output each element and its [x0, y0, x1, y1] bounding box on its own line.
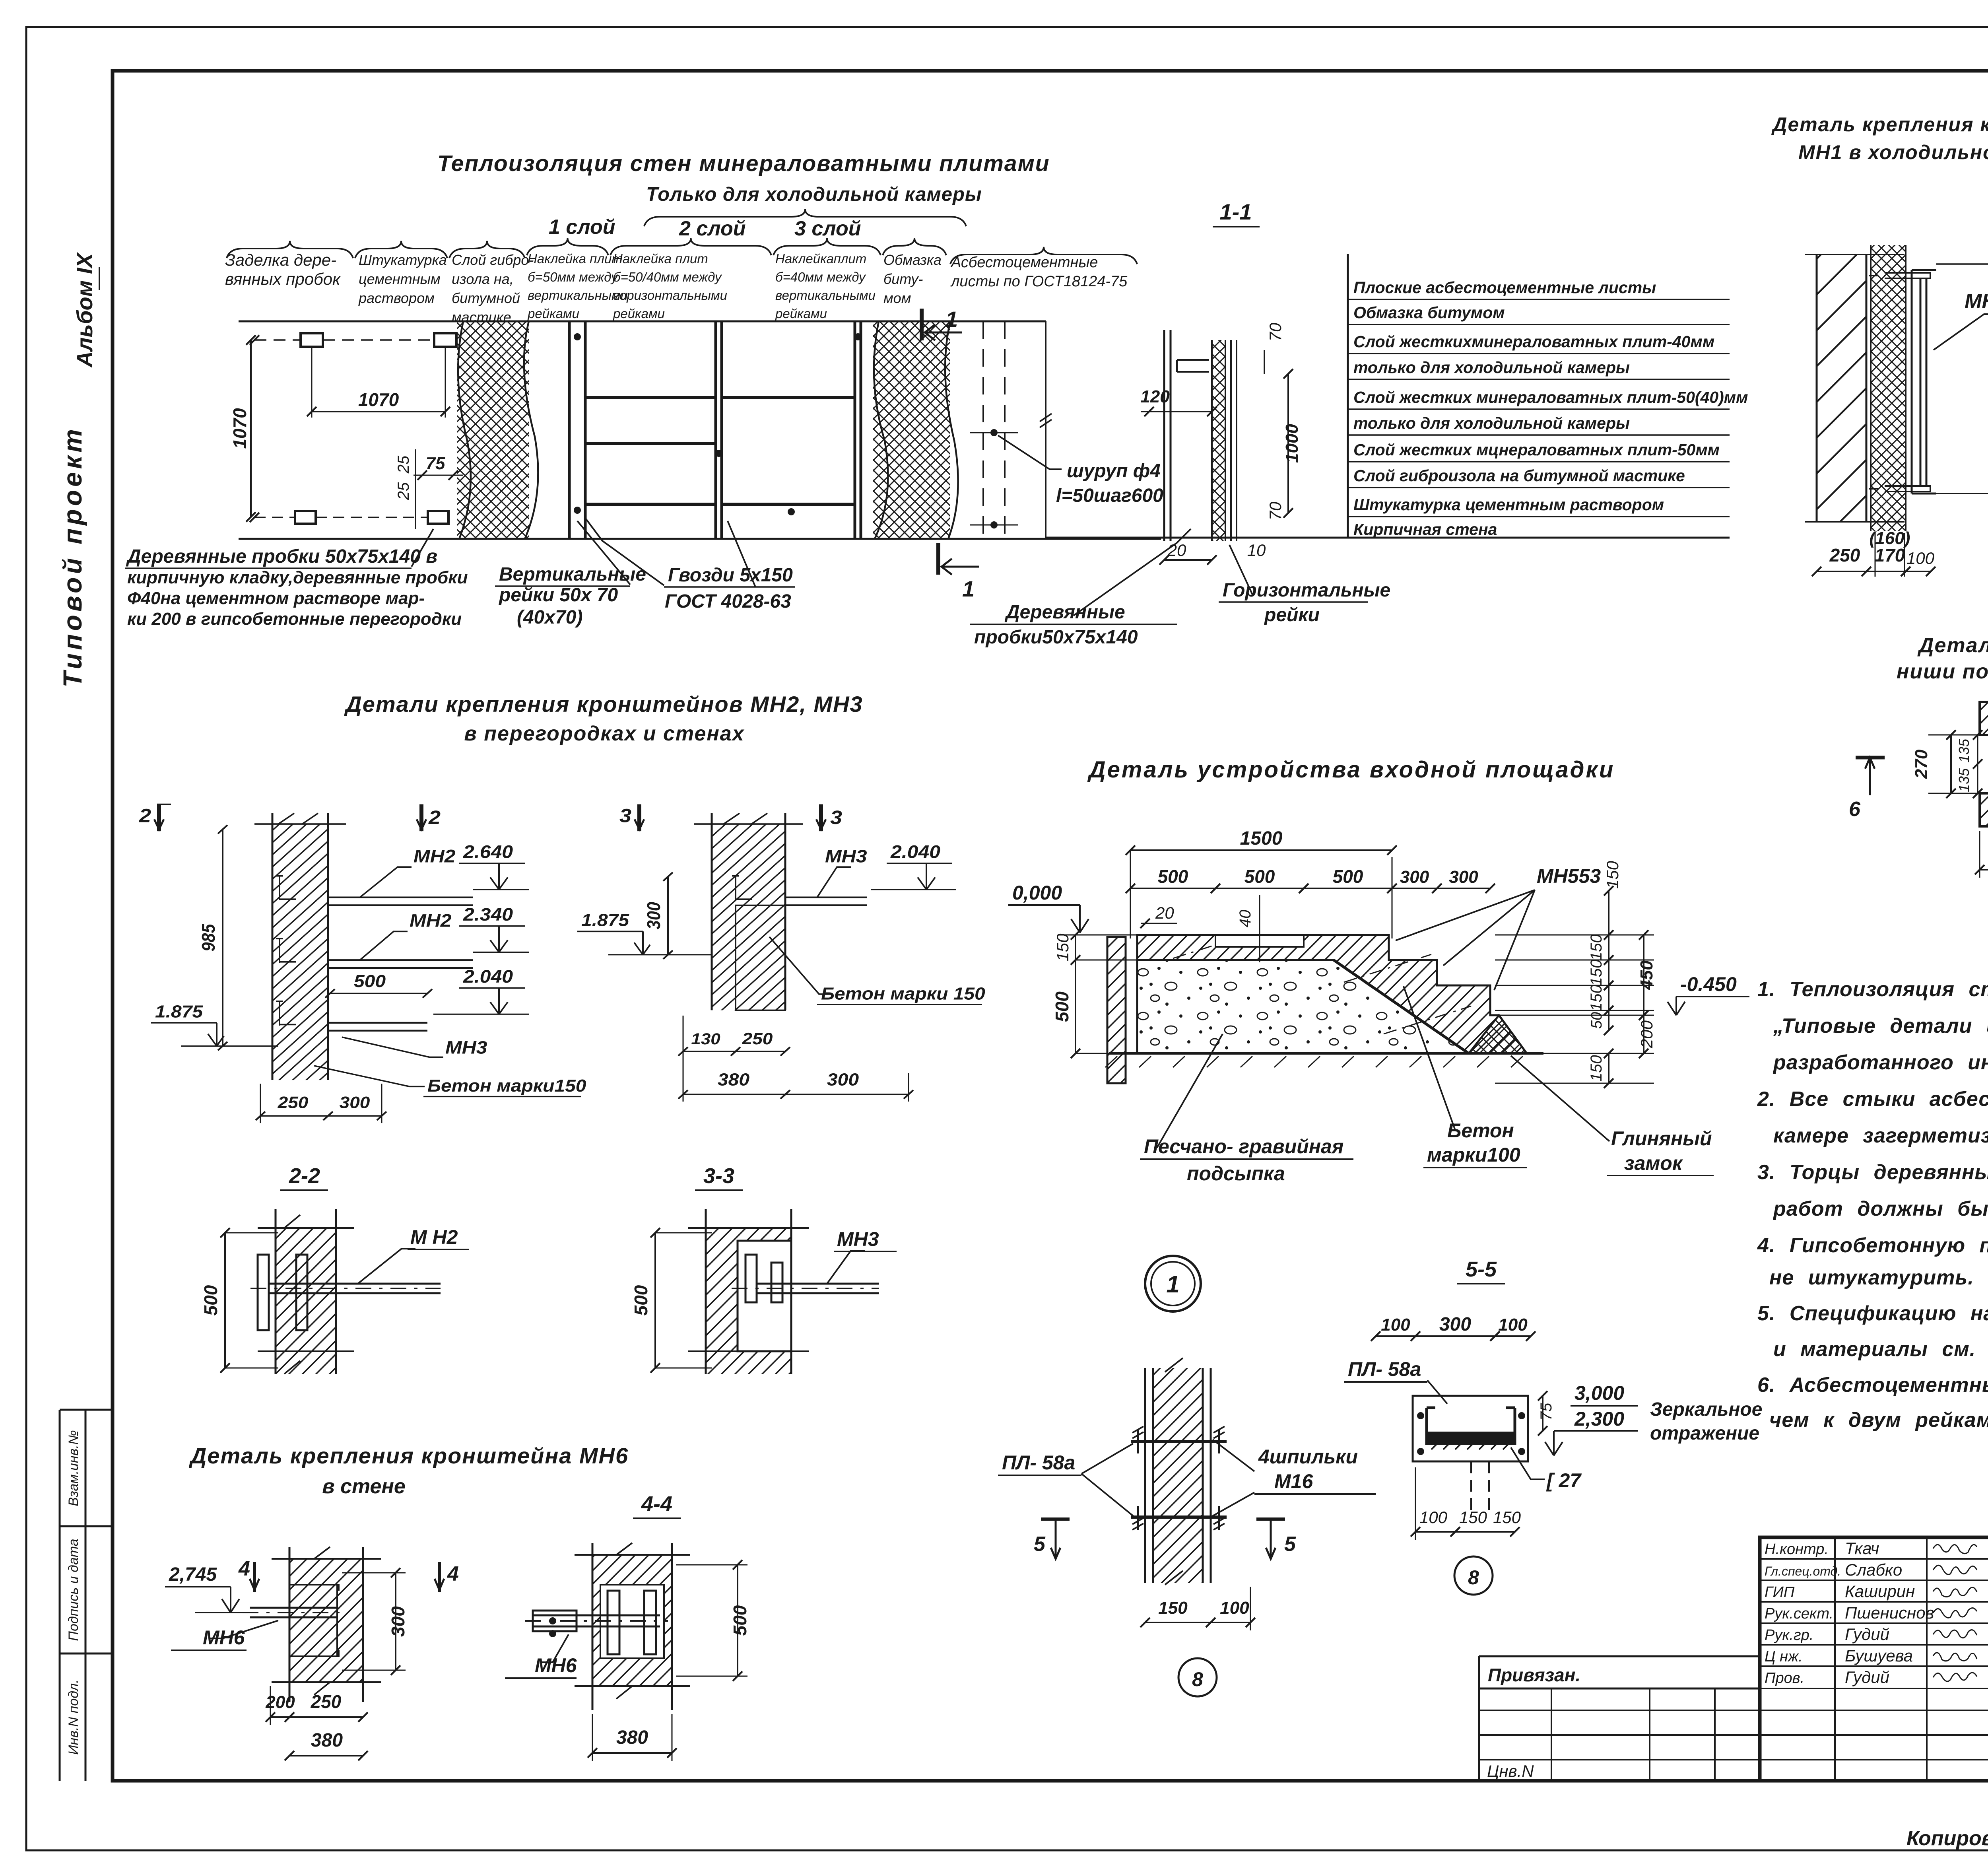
svg-text:только для холодильной камеры: только для холодильной камеры [1353, 358, 1630, 377]
svg-text:380: 380 [616, 1727, 648, 1748]
svg-text:100: 100 [1220, 1598, 1249, 1618]
svg-text:100: 100 [1419, 1508, 1448, 1527]
svg-text:100: 100 [1906, 549, 1935, 567]
svg-text:3-3: 3-3 [703, 1164, 734, 1188]
svg-text:Деревянные: Деревянные [1004, 602, 1125, 623]
svg-text:300: 300 [340, 1093, 370, 1111]
svg-text:Слой гибро-: Слой гибро- [452, 252, 534, 268]
svg-text:150: 150 [1588, 960, 1605, 986]
svg-text:Рук.сект.: Рук.сект. [1765, 1605, 1833, 1622]
svg-text:Деталь устройства входной п: Деталь устройства входной площадки [1087, 757, 1615, 783]
svg-text:б=50мм между: б=50мм между [528, 270, 619, 284]
svg-text:М Н2: М Н2 [410, 1226, 458, 1248]
svg-text:Цнв.N: Цнв.N [1487, 1762, 1534, 1780]
svg-text:Обмазка: Обмазка [883, 252, 942, 268]
svg-text:Зеркальное: Зеркальное [1650, 1399, 1762, 1420]
svg-text:Асбестоцементные: Асбестоцементные [950, 254, 1098, 271]
svg-text:3. Торцы деревянных пробок: 3. Торцы деревянных пробок по окончании … [1757, 1161, 1988, 1184]
svg-text:300: 300 [388, 1606, 408, 1637]
svg-text:4: 4 [447, 1562, 459, 1585]
svg-text:рейками: рейками [527, 306, 579, 321]
svg-text:изола на,: изола на, [452, 271, 514, 287]
svg-text:150: 150 [1053, 933, 1072, 962]
svg-text:3 слой: 3 слой [794, 217, 861, 240]
svg-text:3: 3 [619, 804, 631, 826]
svg-text:250: 250 [311, 1691, 342, 1712]
svg-text:4. Гипсобетонную перегородку: 4. Гипсобетонную перегородку в венткамер… [1757, 1234, 1988, 1257]
svg-text:5. Спецификацию на кронштейн: 5. Спецификацию на кронштейны , закладны… [1757, 1302, 1988, 1325]
svg-text:в перегородках и стенах: в перегородках и стенах [464, 722, 744, 745]
svg-text:2 слой: 2 слой [679, 217, 745, 240]
svg-text:0,000: 0,000 [1012, 882, 1062, 904]
svg-text:МН3: МН3 [445, 1038, 487, 1058]
svg-text:Подпись и дата: Подпись и дата [66, 1539, 81, 1641]
svg-text:500: 500 [354, 971, 386, 991]
svg-text:„Типовые детали изоляционны: „Типовые детали изоляционных конструкций… [1773, 1014, 1988, 1038]
svg-text:Слой гиброизола на битумной ма: Слой гиброизола на битумной мастике [1353, 466, 1685, 485]
svg-text:380: 380 [311, 1730, 343, 1751]
svg-text:М16: М16 [1274, 1470, 1313, 1492]
svg-text:500: 500 [1244, 866, 1275, 887]
svg-text:Слой жестких мцнераловатных пл: Слой жестких мцнераловатных плит-50мм [1353, 441, 1720, 459]
svg-text:МН3: МН3 [837, 1228, 879, 1250]
svg-text:500: 500 [1333, 866, 1363, 887]
svg-text:985: 985 [198, 924, 219, 952]
svg-text:250: 250 [742, 1030, 773, 1048]
svg-text:Бетон: Бетон [1447, 1119, 1514, 1142]
svg-text:Глиняный: Глиняный [1611, 1127, 1712, 1150]
svg-text:Бушуева: Бушуева [1845, 1646, 1913, 1665]
svg-text:биту-: биту- [883, 271, 923, 287]
svg-text:Штукатурка цементным раствором: Штукатурка цементным раствором [1353, 495, 1664, 514]
svg-text:Гудий: Гудий [1845, 1668, 1889, 1686]
svg-text:камере загерметизировать: камере загерметизировать мастикой „ Гэла… [1773, 1124, 1988, 1147]
svg-text:горизонтальными: горизонтальными [613, 288, 727, 303]
svg-text:200: 200 [1637, 1020, 1656, 1049]
svg-text:8: 8 [1192, 1668, 1203, 1690]
svg-text:l=50шаг600: l=50шаг600 [1056, 485, 1163, 506]
svg-text:рейками: рейками [613, 306, 665, 321]
svg-text:250: 250 [1829, 545, 1860, 565]
svg-text:250: 250 [278, 1093, 309, 1111]
svg-text:-0.450: -0.450 [1680, 973, 1737, 995]
svg-text:Наклейка плит: Наклейка плит [528, 251, 623, 266]
svg-text:2.040: 2.040 [890, 842, 940, 862]
svg-text:Слой жестких минераловатных пл: Слой жестких минераловатных плит-50(40)м… [1353, 388, 1748, 406]
svg-text:Пшениснов: Пшениснов [1845, 1603, 1934, 1622]
svg-text:чем к двум рейкам.: чем к двум рейкам. [1769, 1409, 1988, 1432]
svg-text:100: 100 [1498, 1315, 1528, 1335]
svg-text:МН6: МН6 [203, 1626, 245, 1649]
svg-text:1000: 1000 [1282, 424, 1302, 463]
svg-text:150: 150 [1493, 1508, 1521, 1527]
svg-text:50: 50 [1588, 1012, 1605, 1029]
svg-text:Н.контр.: Н.контр. [1765, 1541, 1829, 1558]
svg-text:Штукатурка: Штукатурка [359, 252, 447, 268]
svg-text:Слой жесткихминераловатных пли: Слой жесткихминераловатных плит-40мм [1353, 332, 1714, 351]
svg-text:10: 10 [1247, 541, 1266, 560]
svg-text:вянных пробок: вянных пробок [225, 270, 341, 288]
svg-text:1. Теплоизоляция стен заим: 1. Теплоизоляция стен заимствована из ал… [1757, 978, 1988, 1001]
svg-text:только для холодильной камеры: только для холодильной камеры [1353, 414, 1630, 432]
svg-text:отражение: отражение [1650, 1423, 1759, 1444]
svg-text:1: 1 [945, 307, 958, 332]
svg-text:3: 3 [830, 806, 842, 828]
svg-text:Каширин: Каширин [1845, 1582, 1915, 1601]
svg-text:марки100: марки100 [1427, 1144, 1520, 1166]
svg-text:300: 300 [1449, 867, 1478, 887]
svg-text:500: 500 [730, 1605, 750, 1636]
svg-text:70: 70 [1266, 501, 1285, 520]
svg-text:в стене: в стене [322, 1475, 406, 1498]
svg-text:раствором: раствором [358, 290, 435, 306]
svg-text:ГОСТ 4028-63: ГОСТ 4028-63 [665, 591, 791, 612]
svg-text:ниши поливочного крана: ниши поливочного крана [1897, 660, 1988, 683]
svg-text:1 слой: 1 слой [549, 216, 615, 239]
svg-text:ки 200 в гипсобетонные перегор: ки 200 в гипсобетонные перегородки [127, 609, 462, 629]
svg-text:Бетон марки150: Бетон марки150 [427, 1076, 586, 1095]
svg-text:Копировал Полякова: Копировал Полякова [1906, 1827, 1988, 1850]
svg-text:75: 75 [1538, 1403, 1555, 1420]
svg-text:1-1: 1-1 [1220, 199, 1252, 224]
svg-text:500: 500 [1158, 866, 1188, 887]
svg-text:3,000: 3,000 [1574, 1382, 1624, 1404]
svg-text:Теплоизоляция стен минералов: Теплоизоляция стен минераловатными плита… [437, 151, 1050, 176]
svg-text:Деталь устройства: Деталь устройства [1917, 634, 1988, 657]
svg-text:Ц нж.: Ц нж. [1765, 1648, 1803, 1665]
svg-text:4-4: 4-4 [641, 1492, 672, 1516]
svg-text:Детали крепления кронштейн: Детали крепления кронштейнов МН2, МН3 [344, 692, 863, 717]
svg-text:Взам.инв.№: Взам.инв.№ [66, 1430, 81, 1506]
svg-text:2-2: 2-2 [289, 1164, 320, 1188]
svg-text:70: 70 [1266, 323, 1285, 341]
svg-text:МН3: МН3 [825, 847, 867, 867]
svg-text:МН1: МН1 [1965, 290, 1988, 313]
svg-text:б=50/40мм между: б=50/40мм между [613, 270, 722, 284]
svg-text:Только для холодильной камеры: Только для холодильной камеры [646, 184, 982, 205]
svg-text:20: 20 [1155, 903, 1174, 922]
svg-text:рейки 50х 70: рейки 50х 70 [498, 585, 618, 606]
svg-text:Деталь крепления кронштейна: Деталь крепления кронштейна [1771, 113, 1988, 136]
svg-text:120: 120 [1140, 387, 1170, 406]
svg-text:ПЛ- 58а: ПЛ- 58а [1348, 1358, 1421, 1380]
svg-text:130: 130 [691, 1030, 720, 1047]
svg-text:5: 5 [1284, 1533, 1296, 1556]
svg-text:Песчано- гравийная: Песчано- гравийная [1144, 1135, 1343, 1158]
svg-text:Рук.гр.: Рук.гр. [1765, 1627, 1813, 1644]
svg-text:150: 150 [1603, 861, 1622, 889]
svg-text:МН553: МН553 [1537, 865, 1601, 887]
svg-text:1: 1 [1166, 1271, 1179, 1298]
svg-text:270: 270 [1912, 749, 1931, 779]
svg-text:Вертикальные: Вертикальные [499, 564, 646, 585]
svg-text:Деталь крепления кронштейн: Деталь крепления кронштейна МН6 [189, 1443, 629, 1468]
svg-text:Наклейка плит: Наклейка плит [613, 251, 708, 266]
svg-text:ГИП: ГИП [1765, 1584, 1795, 1601]
svg-text:6: 6 [1849, 798, 1861, 821]
svg-text:75: 75 [426, 454, 445, 473]
svg-text:135: 135 [1956, 768, 1972, 792]
svg-text:Ф40на цементном растворе мар-: Ф40на цементном растворе мар- [127, 589, 425, 608]
svg-text:не штукатурить.: не штукатурить. [1769, 1266, 1974, 1289]
svg-text:150: 150 [1588, 1055, 1605, 1082]
svg-text:вертикальными: вертикальными [775, 288, 876, 303]
svg-text:2. Все стыки асбестоцементны: 2. Все стыки асбестоцементных листов в х… [1757, 1088, 1988, 1111]
svg-text:мом: мом [883, 290, 911, 306]
svg-text:цементным: цементным [359, 271, 441, 287]
svg-text:(40х70): (40х70) [517, 607, 582, 628]
svg-text:листы по ГОСТ18124-75: листы по ГОСТ18124-75 [950, 273, 1128, 290]
svg-text:6. Асбестоцементные листы: 6. Асбестоцементные листы крепить не мен… [1757, 1374, 1988, 1397]
svg-text:разработанного институтом: разработанного институтом „Гипрохолод”. [1773, 1051, 1988, 1074]
svg-text:1070: 1070 [229, 408, 250, 449]
svg-text:Гвозди 5х150: Гвозди 5х150 [668, 565, 793, 586]
svg-text:кирпичную кладку,деревянные пр: кирпичную кладку,деревянные пробки [127, 568, 468, 587]
svg-text:б=40мм между: б=40мм между [775, 270, 866, 284]
svg-text:500: 500 [200, 1285, 221, 1315]
svg-text:40: 40 [1237, 910, 1254, 928]
svg-text:Привязан.: Привязан. [1488, 1665, 1580, 1685]
svg-text:битумной: битумной [452, 290, 520, 306]
svg-text:рейками: рейками [775, 306, 827, 321]
svg-text:150: 150 [1459, 1508, 1487, 1527]
svg-text:Альбом IX: Альбом IX [72, 252, 97, 368]
svg-text:1: 1 [962, 576, 975, 601]
svg-text:170: 170 [1875, 545, 1905, 565]
svg-text:2,300: 2,300 [1574, 1408, 1624, 1430]
svg-text:2.040: 2.040 [463, 967, 513, 987]
svg-text:300: 300 [1439, 1314, 1471, 1335]
svg-text:5: 5 [1034, 1533, 1046, 1556]
svg-text:2,745: 2,745 [169, 1564, 217, 1585]
svg-text:450: 450 [1637, 960, 1656, 990]
svg-text:5-5: 5-5 [1466, 1257, 1497, 1281]
svg-text:Обмазка битумом: Обмазка битумом [1353, 303, 1505, 322]
svg-text:2: 2 [428, 806, 441, 828]
svg-text:2: 2 [139, 804, 151, 826]
svg-text:150: 150 [1588, 934, 1605, 961]
svg-text:Пров.: Пров. [1765, 1670, 1804, 1686]
svg-text:2.640: 2.640 [463, 842, 513, 862]
svg-text:150: 150 [1588, 985, 1605, 1011]
svg-text:2.340: 2.340 [463, 905, 513, 925]
svg-text:Заделка дере-: Заделка дере- [225, 251, 336, 269]
svg-text:подсыпка: подсыпка [1187, 1162, 1285, 1185]
svg-text:1.875: 1.875 [581, 911, 629, 930]
svg-text:150: 150 [1158, 1598, 1188, 1618]
svg-text:МН2: МН2 [414, 847, 456, 867]
svg-text:шуруп ф4: шуруп ф4 [1067, 460, 1161, 482]
svg-text:Кирпичная стена: Кирпичная стена [1353, 520, 1497, 538]
svg-text:Типовой проект: Типовой проект [58, 426, 87, 688]
svg-text:8: 8 [1468, 1566, 1479, 1589]
svg-text:Деревянные пробки 50х75х140 в: Деревянные пробки 50х75х140 в [126, 546, 437, 567]
svg-text:работ должны быть видны на: работ должны быть видны на плоскости сте… [1773, 1197, 1988, 1220]
svg-text:1070: 1070 [358, 389, 399, 410]
svg-text:Гл.спец.отд.: Гл.спец.отд. [1765, 1564, 1841, 1578]
svg-text:рейки: рейки [1264, 604, 1320, 626]
svg-text:Ткач: Ткач [1845, 1539, 1879, 1558]
svg-text:и материалы см. лист 13.: и материалы см. лист 13. [1773, 1338, 1988, 1361]
svg-text:25: 25 [395, 482, 412, 500]
svg-text:1500: 1500 [1240, 828, 1283, 849]
svg-text:4: 4 [238, 1557, 250, 1580]
svg-text:300: 300 [644, 902, 664, 929]
svg-text:[ 27: [ 27 [1546, 1469, 1582, 1492]
svg-text:Гудий: Гудий [1845, 1625, 1889, 1644]
svg-text:500: 500 [631, 1285, 651, 1315]
svg-text:500: 500 [1052, 991, 1072, 1022]
svg-text:ПЛ- 58а: ПЛ- 58а [1002, 1451, 1075, 1474]
svg-text:Бетон марки 150: Бетон марки 150 [821, 984, 985, 1003]
svg-text:100: 100 [1381, 1315, 1410, 1335]
svg-text:замок: замок [1624, 1152, 1683, 1174]
svg-text:МН6: МН6 [535, 1654, 577, 1677]
svg-text:МН1 в холодильной камере: МН1 в холодильной камере [1798, 141, 1988, 163]
svg-text:300: 300 [1400, 867, 1429, 887]
svg-text:пробки50х75х140: пробки50х75х140 [974, 627, 1138, 648]
svg-text:300: 300 [827, 1070, 859, 1089]
svg-text:Инв.N подл.: Инв.N подл. [66, 1679, 81, 1754]
svg-text:Наклейкаплит: Наклейкаплит [775, 251, 866, 266]
svg-text:Плоские асбестоцементные листы: Плоские асбестоцементные листы [1353, 278, 1656, 297]
svg-text:135: 135 [1956, 738, 1972, 763]
svg-text:380: 380 [718, 1070, 749, 1089]
svg-text:25: 25 [395, 455, 412, 474]
svg-text:Слабко: Слабко [1845, 1560, 1902, 1579]
svg-text:4шпильки: 4шпильки [1258, 1446, 1358, 1468]
svg-text:1.875: 1.875 [155, 1002, 203, 1021]
svg-text:МН2: МН2 [410, 911, 452, 931]
